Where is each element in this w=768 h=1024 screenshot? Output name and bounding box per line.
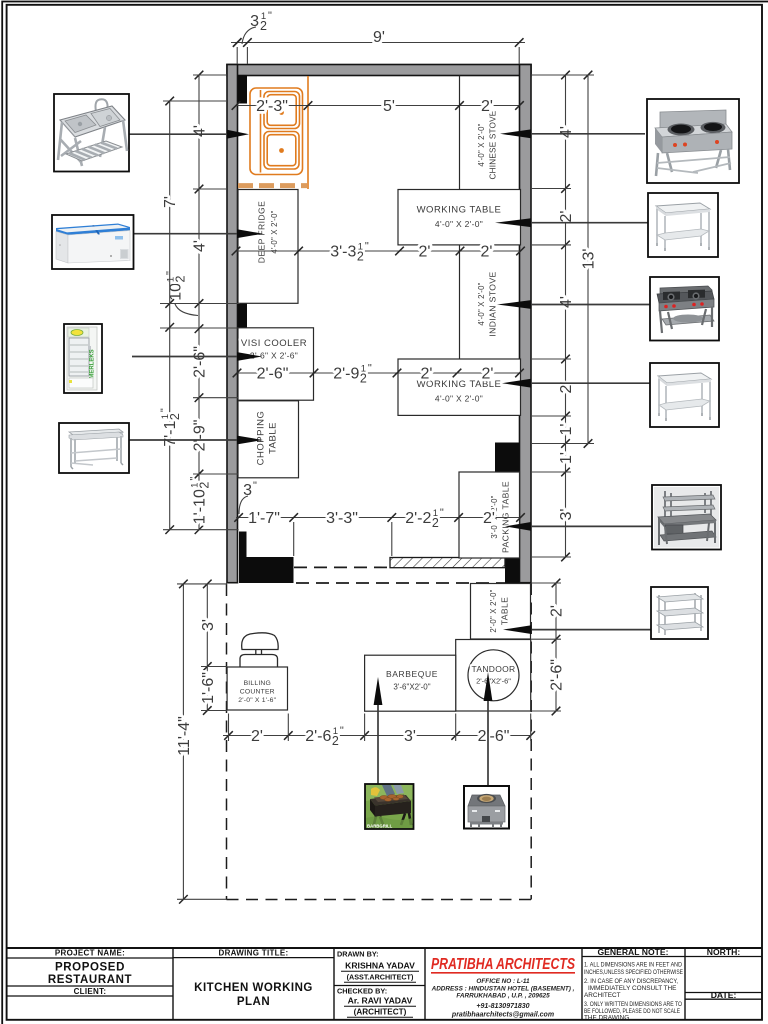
extension line L y584 <box>177 583 227 585</box>
photo barbeque <box>365 784 414 829</box>
svg-text:3': 3' <box>404 728 416 745</box>
leader packing table <box>531 525 652 527</box>
svg-text:2': 2' <box>419 244 431 261</box>
opening dashed line lower <box>296 582 505 584</box>
dimension line row 3-3half 2 2 <box>232 247 525 256</box>
lower area dashed boundary left <box>226 584 228 900</box>
svg-text:(ARCHITECT): (ARCHITECT) <box>354 1008 407 1017</box>
svg-text:INDIAN STOVE: INDIAN STOVE <box>488 271 498 336</box>
svg-text:": " <box>268 10 272 22</box>
extension line L y899 <box>177 898 227 900</box>
svg-text:THE DRAWING: THE DRAWING <box>584 1015 629 1022</box>
svg-text:": " <box>159 408 171 412</box>
svg-text:2: 2 <box>168 413 182 420</box>
dim text 10half <box>165 271 188 301</box>
svg-text:2'-9: 2'-9 <box>333 366 359 383</box>
extension line top jamb a <box>236 47 238 64</box>
extension line rowF ext 364.6 <box>364 714 366 742</box>
svg-text:KRISHNA YADAV: KRISHNA YADAV <box>345 961 415 971</box>
dim text 3half top <box>242 10 272 44</box>
svg-text:2': 2' <box>421 366 433 383</box>
lower area dashed boundary bottom <box>227 899 532 901</box>
svg-text:MERLEKS: MERLEKS <box>90 349 96 378</box>
dim text 4ft R1 <box>558 126 575 138</box>
photo packing table <box>652 485 721 550</box>
sink front dashed edge <box>238 183 307 188</box>
dim text 2-6half <box>305 725 344 748</box>
svg-text:2'-2: 2'-2 <box>405 510 431 527</box>
leader working table 1 <box>531 222 648 224</box>
svg-text:2'-3": 2'-3" <box>256 98 288 115</box>
leader visi cooler <box>132 356 240 358</box>
svg-text:COUNTER: COUNTER <box>240 689 275 696</box>
cash register symbol <box>240 633 278 667</box>
svg-text:3': 3' <box>200 619 217 631</box>
svg-text:PRATIBHA ARCHITECTS: PRATIBHA ARCHITECTS <box>431 956 575 973</box>
svg-text:9': 9' <box>373 29 385 46</box>
dim text 7-1half <box>159 408 182 447</box>
working table 2 box <box>398 359 521 415</box>
arrow packing table <box>505 522 531 531</box>
interior partition indian stove <box>459 245 461 359</box>
dimension line row 1-7 3-3 2-2half 2 <box>234 513 525 522</box>
extension line L y529 <box>163 529 239 531</box>
svg-text:DRAWING TITLE:: DRAWING TITLE: <box>219 948 289 957</box>
svg-text:4': 4' <box>558 296 575 308</box>
svg-text:2: 2 <box>432 516 439 530</box>
arrow barbeque <box>374 677 383 705</box>
arrow working table 2 <box>502 379 531 388</box>
arrow visi cooler <box>237 352 262 361</box>
svg-text:PLAN: PLAN <box>237 996 270 1008</box>
opening dashed line upper <box>294 566 390 568</box>
extension line L y101 <box>163 100 227 102</box>
photo deep fridge <box>52 215 134 269</box>
extension line R y75 <box>531 74 594 76</box>
deep fridge label <box>257 201 280 264</box>
extension line hatch left <box>391 522 393 556</box>
extension line L y303 <box>160 303 240 305</box>
leader table rack <box>531 629 651 631</box>
packing table label <box>490 481 511 553</box>
svg-text:DATE:: DATE: <box>711 990 737 1000</box>
extension line top right corner <box>518 47 520 64</box>
dim text 2ft R2 <box>558 382 575 394</box>
dimension line left 4 4 10half col <box>195 71 204 534</box>
dimension line left 11-4 col <box>179 580 188 904</box>
packing table box <box>459 472 520 558</box>
extension line R low y639.2 <box>531 638 561 640</box>
svg-text:1. ALL DIMENSIONS ARE IN FEET: 1. ALL DIMENSIONS ARE IN FEET AND <box>584 962 682 969</box>
svg-text:": " <box>253 480 257 492</box>
svg-text:": " <box>368 363 372 375</box>
project name text <box>48 948 313 1008</box>
dim text 4ft R2 <box>558 296 575 308</box>
svg-text:2': 2' <box>481 98 493 115</box>
dim text 1-10half <box>189 477 212 525</box>
extension line top jamb b <box>246 47 248 64</box>
svg-text:2': 2' <box>251 728 263 745</box>
dimension line row 2 2-6half 3 2-6 <box>223 731 535 740</box>
svg-text:": " <box>340 725 344 737</box>
svg-text:DEEP FRIDGE: DEEP FRIDGE <box>257 201 267 264</box>
door jamb top-left <box>238 75 248 103</box>
svg-text:2'-9": 2'-9" <box>192 420 209 452</box>
table box lower <box>471 584 531 640</box>
dimension line right seg col <box>561 71 570 562</box>
arrow deep fridge <box>237 229 263 238</box>
svg-text:2'-6": 2'-6" <box>192 346 209 378</box>
svg-text:2'-6": 2'-6" <box>549 659 566 691</box>
svg-text:2: 2 <box>198 482 212 489</box>
arrow tandoor <box>484 672 493 701</box>
svg-text:1'-7": 1'-7" <box>248 510 280 527</box>
project name row lines <box>7 957 762 1000</box>
arrow chinese stove <box>500 129 531 138</box>
arrow sink <box>227 130 249 139</box>
extension line R y557 <box>531 556 571 558</box>
dim text 3ft lower <box>200 619 217 631</box>
svg-text:2'-6": 2'-6" <box>257 366 289 383</box>
svg-text:5': 5' <box>383 98 395 115</box>
svg-text:3'-3": 3'-3" <box>326 510 358 527</box>
svg-text:": " <box>189 477 201 481</box>
svg-text:2'-6: 2'-6 <box>305 728 331 745</box>
leader 10half <box>175 304 198 316</box>
svg-text:(ASST.ARCHITECT): (ASST.ARCHITECT) <box>347 973 414 982</box>
svg-text:PROJECT NAME:: PROJECT NAME: <box>55 949 125 958</box>
svg-text:2: 2 <box>260 19 267 33</box>
svg-text:GENERAL NOTE:: GENERAL NOTE: <box>598 947 669 957</box>
tandoor circle <box>468 650 519 701</box>
drawn by block <box>337 950 419 1018</box>
svg-text:2'-6"X2'-6": 2'-6"X2'-6" <box>476 677 511 686</box>
leader chinese stove <box>531 133 645 135</box>
wall top <box>227 65 531 76</box>
svg-text:TANDOOR: TANDOOR <box>472 664 516 674</box>
dimension line right 2 2-6 col <box>552 579 561 716</box>
sink unit outline <box>250 76 308 189</box>
dim text 1ft R1 <box>558 424 575 436</box>
dim text 3ft R <box>558 509 575 521</box>
table label <box>489 589 510 632</box>
svg-text:3'-6"X2'-0": 3'-6"X2'-0" <box>393 683 430 692</box>
svg-text:2': 2' <box>482 366 494 383</box>
svg-text:2: 2 <box>360 372 367 386</box>
dimension line row 2-6 2-9half 2 2 <box>233 369 524 378</box>
leader working table 2 <box>531 382 650 384</box>
svg-text:2'-6": 2'-6" <box>478 728 510 745</box>
svg-text:CLIENT:: CLIENT: <box>74 987 107 996</box>
column bottom-right <box>505 559 520 584</box>
wall right <box>520 65 532 583</box>
tandoor box <box>456 640 531 712</box>
dimension line right 13ft col <box>584 71 593 448</box>
svg-text:DRAWN BY:: DRAWN BY: <box>337 950 379 959</box>
dim text 4ft L2 <box>192 240 209 252</box>
sink drain dots <box>279 110 284 115</box>
svg-text:TABLE: TABLE <box>268 422 279 454</box>
extension line rowF ext 455.7 <box>455 714 457 742</box>
deep fridge box <box>238 190 298 304</box>
svg-text:CHOPPING: CHOPPING <box>256 411 267 466</box>
extension line R y359 <box>531 358 571 360</box>
svg-text:4'-0" X 2'-0": 4'-0" X 2'-0" <box>435 219 483 229</box>
dim text 7ft <box>162 196 179 208</box>
svg-text:4'-0" X 2'-0": 4'-0" X 2'-0" <box>477 123 486 166</box>
dim text 2-2half <box>405 507 444 530</box>
leader indian stove <box>531 304 650 306</box>
column bottom-left L <box>239 532 294 584</box>
photo tandoor <box>464 786 509 829</box>
svg-text:": " <box>440 507 444 519</box>
svg-text:pratibhaarchitects@gmail.com: pratibhaarchitects@gmail.com <box>451 1012 554 1019</box>
chopping table box <box>238 401 299 478</box>
interior partition chinese stove <box>459 76 461 190</box>
extension line L y666 <box>201 666 227 668</box>
svg-text:2': 2' <box>558 211 575 223</box>
extension line L y328 <box>160 327 238 329</box>
extension line L y75 <box>193 74 227 76</box>
dim text 4ft L1 <box>192 125 209 137</box>
svg-text:2'-0" X 2'-0": 2'-0" X 2'-0" <box>489 589 498 632</box>
svg-text:Ar. RAVI YADAV: Ar. RAVI YADAV <box>348 996 413 1006</box>
dim text 2ft table <box>549 605 566 617</box>
leader deep fridge <box>133 233 240 235</box>
svg-text:IMMEDIATELY CONSULT THE: IMMEDIATELY CONSULT THE <box>588 985 676 992</box>
arrow table rack <box>503 625 531 634</box>
dim text 2-9 L <box>192 420 209 452</box>
svg-text:2: 2 <box>357 250 364 264</box>
extension line L y397 <box>193 397 238 399</box>
svg-text:2': 2' <box>483 510 495 527</box>
visi cooler box <box>238 328 314 400</box>
working table 1 box <box>398 190 521 245</box>
photo indian stove <box>650 277 719 341</box>
svg-text:2'-0" X 1'-6": 2'-0" X 1'-6" <box>238 697 276 704</box>
svg-text:CHECKED BY:: CHECKED BY: <box>337 987 387 996</box>
dimension line row sink 2-3 5 2 <box>232 101 524 110</box>
extension line R y443.5 <box>531 443 594 445</box>
extension line R low y711 <box>531 710 561 712</box>
photo chinese stove <box>647 99 739 183</box>
svg-text:TABLE: TABLE <box>500 597 510 626</box>
arrow indian stove <box>497 300 531 309</box>
dim text 1ft R2 <box>558 452 575 464</box>
svg-text:1'-6": 1'-6" <box>200 672 217 704</box>
extension line blockL corner <box>293 522 295 556</box>
photo working table 2 <box>650 363 719 427</box>
svg-text:4': 4' <box>192 240 209 252</box>
extension line rowF ext 288.3 <box>287 714 289 742</box>
dim text 2-9half <box>333 363 372 386</box>
column packing corner <box>495 443 520 473</box>
svg-text:1'-10: 1'-10 <box>192 489 209 524</box>
dim text 13ft <box>581 249 598 270</box>
svg-text:2. IN CASE OF ANY DISCREPANCY,: 2. IN CASE OF ANY DISCREPANCY, <box>584 978 678 985</box>
indian stove label <box>477 271 498 336</box>
extension line R y188.5 <box>531 188 571 190</box>
extension line R y416 <box>531 415 571 417</box>
svg-text:2'-6" X 2'-6": 2'-6" X 2'-6" <box>250 351 298 361</box>
svg-text:CHINESE STOVE: CHINESE STOVE <box>489 110 498 179</box>
svg-text:2': 2' <box>481 244 493 261</box>
svg-text:BARBGRILL: BARBGRILL <box>367 824 393 829</box>
extension line L y710 <box>201 710 227 712</box>
svg-text:2': 2' <box>549 605 566 617</box>
leader sink <box>129 133 230 135</box>
dimension line left 7ft col <box>165 97 174 534</box>
arrow chopping table <box>237 436 263 445</box>
photo chopping table <box>59 423 129 473</box>
leader chopping table <box>129 439 240 441</box>
svg-text:4': 4' <box>192 125 209 137</box>
extension line rowF ext 530.7 <box>530 714 532 742</box>
barbeque box <box>365 655 456 711</box>
dim text 2-6 tandoor R <box>549 659 566 691</box>
svg-text:1': 1' <box>558 452 575 464</box>
extension line L y189 <box>193 188 227 190</box>
svg-text:7': 7' <box>162 196 179 208</box>
svg-text:WORKING TABLE: WORKING TABLE <box>417 205 502 216</box>
svg-text:BARBEQUE: BARBEQUE <box>386 669 438 679</box>
svg-text:NORTH:: NORTH: <box>707 947 741 957</box>
hatched counter strip <box>390 558 505 568</box>
lower area dashed boundary right <box>530 583 532 900</box>
dim text 3in <box>239 480 257 514</box>
dim text 1-6 lower <box>200 672 217 704</box>
svg-text:FARRUKHABAD , U.P. , 209625: FARRUKHABAD , U.P. , 209625 <box>456 993 550 1000</box>
door jamb left mid <box>238 303 248 328</box>
svg-text:3. ONLY WRITTEN DIMENSIONS ARE: 3. ONLY WRITTEN DIMENSIONS ARE TO <box>584 1001 682 1008</box>
svg-text:+91-8130971830: +91-8130971830 <box>476 1003 529 1010</box>
dimension line 9ft <box>231 38 525 47</box>
extension line R y244.9 <box>531 244 571 246</box>
svg-text:4'-0" X 2'-0": 4'-0" X 2'-0" <box>435 394 483 404</box>
photo sink <box>54 94 129 172</box>
svg-text:3'-3: 3'-3 <box>330 244 356 261</box>
dim text 3-3half <box>330 241 369 264</box>
svg-text:": " <box>165 271 177 275</box>
dim text 2ft R1 <box>558 211 575 223</box>
svg-text:OFFICE NO : L-11: OFFICE NO : L-11 <box>476 978 530 985</box>
billing counter box <box>227 667 287 710</box>
wall left <box>227 65 238 583</box>
svg-text:": " <box>365 241 369 253</box>
svg-text:13': 13' <box>581 249 598 270</box>
svg-text:11'-4": 11'-4" <box>176 716 193 756</box>
svg-text:RESTAURANT: RESTAURANT <box>48 974 132 986</box>
photo working table 1 <box>648 193 718 257</box>
svg-text:BILLING: BILLING <box>244 680 271 687</box>
svg-text:ADDRESS : HINDUSTAN HOTEL (BAS: ADDRESS : HINDUSTAN HOTEL (BASEMENT) , <box>431 986 575 993</box>
photo rack <box>651 587 708 639</box>
svg-text:7'-1: 7'-1 <box>162 421 179 447</box>
leader tandoor <box>487 700 489 786</box>
pratibha architects block <box>431 956 576 1019</box>
dimension line left 3 1-6 col <box>203 580 212 715</box>
svg-text:VISI COOLER: VISI COOLER <box>241 338 307 349</box>
photo visi cooler <box>64 324 102 393</box>
extension line L y474 <box>193 473 238 475</box>
extension line R low y583 <box>531 582 561 584</box>
svg-text:2: 2 <box>174 275 188 282</box>
chinese stove label <box>477 110 498 179</box>
title block frame <box>7 948 762 1020</box>
svg-text:3': 3' <box>558 509 575 521</box>
dim text 11-4 <box>176 716 193 756</box>
svg-text:KITCHEN WORKING: KITCHEN WORKING <box>194 982 313 994</box>
svg-text:INCHES,UNLESS SPECIFIED OTHERW: INCHES,UNLESS SPECIFIED OTHERWISE <box>584 969 683 976</box>
svg-text:PROPOSED: PROPOSED <box>55 962 125 974</box>
svg-text:4'-0" X 2'-0": 4'-0" X 2'-0" <box>477 282 486 325</box>
chopping table label <box>256 411 279 466</box>
svg-text:ARCHITECT: ARCHITECT <box>584 992 621 999</box>
leader barbeque <box>377 704 379 785</box>
svg-text:4': 4' <box>558 126 575 138</box>
extension line rowF ext 228.5 <box>228 714 230 742</box>
svg-text:4'-0" X 2'-0": 4'-0" X 2'-0" <box>270 210 279 253</box>
extension line R y472 <box>531 471 571 473</box>
arrow working table 1 <box>495 218 531 227</box>
dim text 2-6 L <box>192 346 209 378</box>
svg-text:1': 1' <box>558 424 575 436</box>
svg-text:2: 2 <box>332 734 339 748</box>
